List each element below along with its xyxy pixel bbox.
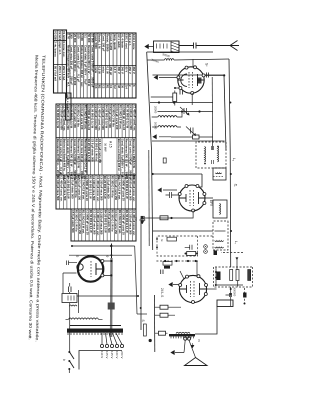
parts table C outer border — [56, 175, 136, 209]
svg-text:R1 50 000 Ω 0,1 W: R1 50 000 Ω 0,1 W — [125, 210, 129, 233]
svg-text:160 V: 160 V — [115, 351, 119, 358]
rotated landscape schematic group — [28, 30, 253, 373]
V1 cathode cup — [178, 74, 187, 86]
svg-text:Resistenza 1 MΩ 0,5 W . . . 1: Resistenza 1 MΩ 0,5 W . . . 1 MΩ — [132, 139, 136, 181]
capacitor C2 at V1 cathode — [180, 90, 183, 95]
svg-text:C2 100 pF mica 500: C2 100 pF mica 500 — [129, 105, 133, 130]
V3 anode bar — [200, 283, 207, 295]
svg-text:95 V: 95 V — [124, 67, 128, 73]
V1 internal anode block — [197, 78, 202, 84]
svg-text:6: 6 — [132, 85, 136, 87]
svg-text:A 15: A 15 — [109, 141, 113, 148]
tube V3 EBC3 detector envelope — [179, 275, 206, 302]
resistor R3 screen — [160, 216, 168, 220]
svg-text:Resistenza 300 Ω 1 W . . . 300: Resistenza 300 Ω 1 W . . . 300 Ω — [70, 139, 74, 180]
svg-text:36: 36 — [121, 85, 125, 88]
svg-text:262 V: 262 V — [132, 67, 136, 74]
voice coil terminal circles — [187, 337, 190, 340]
wire: vertical x=255 grid feed — [69, 254, 132, 256]
svg-text:R1 50 000 Ω 0,1 W: R1 50 000 Ω 0,1 W — [91, 105, 95, 129]
wire V2 screen to R3 — [182, 211, 193, 218]
svg-text:C3 5000 pF carta 10: C3 5000 pF carta 10 — [85, 176, 89, 201]
svg-text:245 V: 245 V — [121, 67, 125, 74]
svg-text:C5 8 μF elettr. 500: C5 8 μF elettr. 500 — [73, 105, 77, 128]
table C rows — [135, 175, 137, 209]
svg-text:EF9: EF9 — [209, 200, 213, 206]
junction dot — [230, 293, 232, 295]
wire: x=296 drop to mains box — [77, 295, 138, 297]
capacitor C5 V2 cathode bypass — [166, 192, 180, 198]
svg-text:C4 0,1 μF carta 150: C4 0,1 μF carta 150 — [80, 105, 84, 130]
svg-text:Cond. carta 5 000 pF . . . 500: Cond. carta 5 000 pF . . . 5000 pF — [73, 139, 77, 181]
svg-text:Resistenza 300 Ω 1 W . . . 300: Resistenza 300 Ω 1 W . . . 300 Ω — [87, 45, 91, 87]
component C13 inside enclosure — [185, 245, 192, 250]
svg-text:0,1 W: 0,1 W — [105, 67, 109, 75]
svg-text:C1 450 pF cond. var.: C1 450 pF cond. var. — [96, 176, 100, 202]
svg-text:5: 5 — [75, 256, 79, 258]
antenna tap box (presa variabile) — [154, 41, 180, 53]
svg-text:Cond. carta 0,1 μF . . . 0,1 μ: Cond. carta 0,1 μF . . . 0,1 μF — [77, 45, 81, 82]
svg-text:R1 50 000 Ω 0,1 W: R1 50 000 Ω 0,1 W — [89, 176, 93, 199]
svg-text:R3 300 Ω 1 W filo: R3 300 Ω 1 W filo — [110, 176, 114, 198]
svg-text:R2 1 MΩ 0,5 W pot.: R2 1 MΩ 0,5 W pot. — [82, 210, 86, 234]
capacitor C9 blob — [243, 293, 246, 298]
wire: second bus y=134 — [148, 150, 150, 246]
wire: speaker leads — [184, 340, 196, 357]
wire: L2 top lead — [152, 112, 182, 128]
svg-text:C2: C2 — [101, 85, 105, 89]
svg-text:R1 50 000 Ω 0,1 W: R1 50 000 Ω 0,1 W — [89, 210, 93, 233]
series resistor on B+ feed — [141, 216, 144, 221]
dashed extension of enclosure left edge — [198, 235, 213, 237]
svg-text:262 V 6 mA: 262 V 6 mA — [62, 66, 66, 80]
resistor R8 — [160, 305, 168, 309]
svg-text:C6 250 pF mica 500: C6 250 pF mica 500 — [63, 176, 67, 201]
wire: vertical x=246 feed — [72, 245, 135, 247]
bottom band dividers — [54, 41, 67, 65]
svg-text:C4 0,1 μF carta 150: C4 0,1 μF carta 150 — [98, 139, 102, 164]
svg-text:50000: 50000 — [154, 122, 158, 130]
svg-text:5 000: 5 000 — [80, 34, 84, 41]
svg-text:C1 450 pF cond. var.: C1 450 pF cond. var. — [59, 176, 63, 202]
svg-text:0,4: 0,4 — [124, 85, 128, 89]
wire: V4 pins to HT line — [104, 261, 111, 275]
svg-text:Cond. 100 pF: Cond. 100 pF — [101, 34, 105, 52]
capacitor C8 black blob in AVC box — [217, 272, 221, 281]
svg-text:9: 9 — [105, 256, 109, 258]
wire: V1 cathode down — [169, 77, 179, 88]
AVC dashed box — [214, 267, 253, 287]
V4 anode bar — [96, 263, 104, 275]
svg-text:C2 100 pF mica 500: C2 100 pF mica 500 — [94, 105, 98, 130]
IF transformer T1 dashed box — [196, 142, 226, 168]
wire: winding to voice coil — [185, 335, 189, 338]
svg-text:145 V: 145 V — [110, 351, 114, 358]
wire: bottom bus left section — [147, 52, 153, 250]
svg-text:R3 300 Ω 1 W filo: R3 300 Ω 1 W filo — [74, 176, 78, 198]
svg-text:Resistenza 20 000 Ω . . . 20 0: Resistenza 20 000 Ω . . . 20 000 — [56, 139, 60, 179]
junction blob y128 — [149, 339, 152, 342]
table A col divider x=65.5 — [94, 65, 136, 67]
wire: drop at x=75 — [153, 74, 225, 76]
svg-text:R1: R1 — [105, 85, 109, 89]
junction dot osc bus — [152, 173, 154, 175]
junction dot bottom x246 — [71, 245, 73, 247]
wire: primary to mains y=204.5 — [78, 290, 80, 313]
V3 pin circles — [179, 275, 208, 304]
svg-text:C1 450 pF cond. var.: C1 450 pF cond. var. — [132, 176, 136, 202]
svg-text:Resistenza 300 Ω 1 W . . . 300: Resistenza 300 Ω 1 W . . . 300 Ω — [124, 139, 128, 180]
parts table D outer border — [71, 209, 136, 241]
T1 trimmer marks — [212, 146, 214, 164]
table B col divider x=137.7 — [56, 137, 136, 139]
T2 winding row — [220, 204, 221, 215]
ground arrow V1 cathode — [154, 76, 169, 80]
svg-text:R1 50 000 Ω 0,1 W: R1 50 000 Ω 0,1 W — [125, 176, 129, 199]
svg-text:R2 1 MΩ 0,5 W pot.: R2 1 MΩ 0,5 W pot. — [118, 176, 122, 200]
svg-text:400000: 400000 — [233, 288, 237, 297]
mains box marks — [68, 296, 74, 301]
table B left rows — [135, 104, 137, 138]
svg-text:300 V: 300 V — [117, 67, 121, 74]
svg-text:Resist. 1 M: Resist. 1 M — [98, 34, 102, 49]
black blob at T3 corner — [214, 251, 218, 256]
svg-text:C3 5000 pF carta 10: C3 5000 pF carta 10 — [121, 176, 125, 201]
table A upper row lines — [135, 33, 137, 98]
V2 anode bar — [199, 192, 206, 204]
svg-text:300: 300 — [70, 34, 74, 39]
svg-text:Cond. elettr. 8 μF 500 V . . 8: Cond. elettr. 8 μF 500 V . . 8 μF — [83, 45, 87, 85]
V3 grid dashed — [191, 281, 195, 297]
wire: vertical x=111.5 — [158, 111, 214, 113]
ground arrow V2 cathode — [158, 188, 177, 192]
svg-text:C3 5000 pF carta 10: C3 5000 pF carta 10 — [87, 105, 91, 131]
inductor L1 antenna coil — [164, 59, 174, 61]
ground arrow speaker — [171, 351, 184, 355]
svg-text:C5 8 μF elettr. 500: C5 8 μF elettr. 500 — [107, 176, 111, 199]
ground arrow oscillator — [153, 135, 171, 139]
wire: V2 screen drop x=218 — [141, 217, 182, 219]
tube V1 ECH4 converter envelope — [178, 67, 204, 93]
table B right lower rows — [86, 138, 88, 175]
fuse component y=138 — [144, 324, 147, 336]
wire: switch to plug — [68, 303, 70, 373]
wire: R2 leads — [171, 136, 213, 138]
T3 winding a — [215, 241, 224, 242]
svg-text:C4 0,1 μF carta 150: C4 0,1 μF carta 150 — [114, 210, 118, 234]
svg-text:C6 250 pF mica 500: C6 250 pF mica 500 — [66, 105, 70, 130]
svg-text:AL 4 finale: AL 4 finale — [121, 34, 125, 48]
capacitor C1 antenna series — [180, 43, 197, 49]
table B right upper rows — [135, 138, 137, 175]
junction dot near V1 bottom — [174, 87, 176, 89]
svg-text:Cond. carta 5 000 pF . . . 500: Cond. carta 5 000 pF . . . 5000 pF — [90, 45, 94, 88]
svg-text:L₂: L₂ — [232, 158, 236, 162]
IF transformer T3 dashed box — [213, 221, 228, 250]
T1 lead dots — [204, 146, 219, 165]
wire: stub x=52 — [147, 51, 213, 53]
svg-text:C5 8 μF elettr. 500: C5 8 μF elettr. 500 — [70, 176, 74, 199]
ground arrow V3 — [169, 283, 179, 287]
power transformer core line — [70, 325, 122, 327]
parts table A lower half — [67, 33, 95, 98]
switch contacts — [70, 352, 75, 368]
terminal circles voltage selector — [120, 344, 123, 347]
svg-text:Bobina oscillatore 468 kc . .: Bobina oscillatore 468 kc . . osc. — [117, 139, 121, 181]
capacitor C12 mains — [69, 287, 72, 293]
svg-text:20000: 20000 — [154, 106, 158, 114]
junction dots AVC bottom — [215, 271, 217, 286]
svg-text:6,3 V: 6,3 V — [113, 67, 117, 74]
arrow into AVC — [235, 258, 238, 260]
svg-text:C4 0,1 μF carta 150: C4 0,1 μF carta 150 — [114, 176, 118, 200]
wire: V3 grid to bus — [180, 261, 197, 279]
svg-text:Bobina oscillatore 468 kc . .: Bobina oscillatore 468 kc . . osc. — [63, 139, 67, 181]
junction dot x255 on HT — [110, 254, 112, 256]
capacitor C11 near V3 — [161, 270, 163, 275]
junction dots B+ — [137, 295, 142, 309]
svg-text:10 000: 10 000 — [90, 34, 94, 43]
svg-text:Cond. carta 0,1 μF . . . 0,1 μ: Cond. carta 0,1 μF . . . 0,1 μF — [59, 139, 63, 176]
wire: y=148 link right — [135, 246, 137, 314]
solid line x=231 from T3 to bus — [153, 230, 213, 232]
svg-text:R1 50 000 Ω 0,1 W: R1 50 000 Ω 0,1 W — [125, 105, 129, 129]
bottom band step piece — [66, 93, 72, 120]
svg-text:C2 100 pF mica 500: C2 100 pF mica 500 — [92, 210, 96, 235]
wire: AVC box bottom bus — [215, 268, 243, 286]
dashed AVC line lower x=261 — [156, 260, 198, 262]
svg-text:C1 450 pF cond. var.: C1 450 pF cond. var. — [132, 105, 136, 131]
comb teeth secondary — [121, 333, 123, 335]
svg-text:C6 250 pF mica 500: C6 250 pF mica 500 — [101, 105, 105, 130]
table A lower row lines — [93, 33, 95, 98]
variable capacitor CV2 oscillator arrow — [186, 127, 196, 136]
svg-text:Trimm: Trimm — [151, 58, 160, 64]
svg-text:50 000: 50 000 — [87, 34, 91, 43]
capacitor C10 small — [226, 293, 232, 297]
mains entry box — [62, 294, 77, 303]
svg-text:R4 20 000 Ω 0,5 W: R4 20 000 Ω 0,5 W — [104, 105, 108, 129]
wire: V1 right pin to oscillator — [191, 93, 193, 105]
V1 grid dashed — [189, 72, 193, 88]
svg-text:Resistenza 20 000 Ω . . . 20 0: Resistenza 20 000 Ω . . . 20 000 — [73, 45, 77, 86]
resistor R5 in AVC box — [236, 270, 239, 281]
capacitor blob near V3 — [164, 266, 170, 269]
svg-text:C2 100 pF mica 500: C2 100 pF mica 500 — [92, 176, 96, 201]
svg-text:Cond. elettr. 8 μF 500 V . . 8: Cond. elettr. 8 μF 500 V . . 8 μF — [66, 139, 70, 178]
electrolytic capacitor blob on HT line — [108, 303, 115, 310]
wire y=46 feed — [236, 257, 239, 287]
svg-text:220 V: 220 V — [120, 351, 124, 358]
junction dots oscillator — [158, 101, 201, 112]
V2 grids dashed — [190, 190, 194, 206]
wire: R1 to bus — [151, 91, 175, 106]
svg-text:C5 8 μF elettr. 500: C5 8 μF elettr. 500 — [108, 105, 112, 128]
svg-text:EBC 3 rivel.: EBC 3 rivel. — [124, 34, 128, 50]
svg-text:0,1: 0,1 — [83, 34, 87, 38]
svg-text:R3 300 Ω 1 W filo: R3 300 Ω 1 W filo — [77, 105, 81, 127]
V4 pin circles — [101, 260, 104, 277]
svg-text:L₇: L₇ — [234, 241, 238, 245]
svg-text:S: S — [141, 320, 145, 322]
bottom band row lines — [66, 30, 68, 93]
CV2 plates — [191, 128, 194, 134]
svg-text:C4 0,1 μF carta 150: C4 0,1 μF carta 150 — [78, 210, 82, 234]
wire: primary top lead — [66, 318, 103, 320]
speaker transformer winding thick bar — [169, 334, 195, 336]
HT line thin part y=171.5 — [111, 244, 113, 259]
svg-text:C5 8 μF elettr. 500: C5 8 μF elettr. 500 — [91, 139, 95, 162]
svg-text:R2 1 MΩ 0,5 W pot.: R2 1 MΩ 0,5 W pot. — [81, 176, 85, 200]
V3 cathode — [180, 285, 187, 293]
svg-text:Cond. mica 100 pF . . . . . 10: Cond. mica 100 pF . . . . . 100 pF — [80, 139, 84, 180]
svg-text:V3 EBC3 riv. bassa: V3 EBC3 riv. bassa — [53, 31, 57, 57]
resistor R2b small — [163, 158, 166, 163]
svg-text:R4 20 000 Ω 0,5 W: R4 20 000 Ω 0,5 W — [103, 176, 107, 199]
svg-text:R4 20 000 Ω 0,5 W: R4 20 000 Ω 0,5 W — [70, 105, 74, 129]
switch dots — [68, 351, 70, 370]
resistor R2 oscillator — [193, 135, 200, 139]
dashed enclosure around detector stage — [157, 236, 198, 256]
wire: V1 anode up to bus — [205, 74, 224, 76]
svg-text:110 V: 110 V — [100, 351, 104, 358]
power transformer primary winding loops — [96, 318, 99, 319]
svg-text:24 L.S: 24 L.S — [160, 288, 164, 297]
svg-text:R2 1 MΩ 0,5 W pot.: R2 1 MΩ 0,5 W pot. — [118, 105, 122, 130]
resistor R1 beside V1 — [173, 93, 177, 102]
svg-text:125 V: 125 V — [105, 351, 109, 358]
wire: V2 grid lead from x=174 — [153, 174, 202, 187]
V2 cathode — [179, 194, 186, 202]
junction dot HT — [110, 245, 112, 247]
table B strong divider y=196 — [86, 104, 88, 175]
svg-text:0,2: 0,2 — [113, 85, 117, 89]
dashed grid feed line y=38.5 — [244, 288, 246, 304]
V2 pin circles — [178, 185, 206, 213]
svg-text:450 pF: 450 pF — [109, 67, 113, 76]
wire: V4 cathode down — [63, 273, 77, 293]
svg-text:Resistenza 1 MΩ 0,5 W . . . 1: Resistenza 1 MΩ 0,5 W . . . 1 MΩ — [76, 139, 80, 181]
svg-text:Cond. elettr. 8 μF 500 V . . 8: Cond. elettr. 8 μF 500 V . . 8 μF — [121, 139, 125, 178]
svg-text:R3 300 Ω 1 W filo: R3 300 Ω 1 W filo — [74, 210, 78, 232]
svg-text:Bobina oscillatore 468 kc . .: Bobina oscillatore 468 kc . . osc. — [80, 45, 84, 88]
svg-text:C4 0,1 μF carta 150: C4 0,1 μF carta 150 — [115, 105, 119, 130]
thick HT line y=171.7 — [110, 258, 113, 337]
svg-text:Cond. carta 5 000 pF . . . 500: Cond. carta 5 000 pF . . . 5000 pF — [128, 139, 132, 181]
svg-text:47: 47 — [233, 183, 237, 188]
svg-text:25 000: 25 000 — [73, 34, 77, 43]
svg-text:48: 48 — [117, 85, 121, 88]
resistor R5b in AVC box — [230, 270, 233, 281]
wire: V2 anode up — [205, 197, 213, 199]
V4 inner cathode circle — [77, 264, 83, 270]
arrow right of transformer — [191, 343, 194, 348]
V4 grid dashed — [90, 261, 92, 277]
svg-text:Cond. mica 250 pF . . . . 250: Cond. mica 250 pF . . . . 250 pF — [70, 45, 74, 85]
svg-text:lamp. quadr.: lamp. quadr. — [113, 34, 117, 51]
svg-text:R4 20 000 Ω 0,5 W: R4 20 000 Ω 0,5 W — [103, 210, 107, 233]
wire: vertical x=141 to T1 — [152, 140, 225, 142]
wire R6 dots — [185, 253, 199, 255]
inductor L3 oscillator secondary — [158, 126, 177, 128]
resistor R10 — [159, 331, 166, 335]
svg-text:C3 5000 pF carta 10: C3 5000 pF carta 10 — [122, 105, 126, 131]
svg-text:C4 0,1 μF carta 150: C4 0,1 μF carta 150 — [78, 176, 82, 200]
svg-text:C3 5000 pF carta 10: C3 5000 pF carta 10 — [121, 210, 125, 235]
T3 winding b — [215, 247, 224, 248]
capacitor C3 in grid lead — [207, 73, 209, 78]
svg-text:Cond. 2x450: Cond. 2x450 — [109, 34, 113, 51]
junction dots on AVC dashed line — [164, 260, 197, 262]
resistor R7 vertical near V3 — [163, 262, 172, 266]
resistor R11 inside enclosure — [167, 237, 177, 241]
svg-text:AZ 1 raddr.: AZ 1 raddr. — [117, 34, 121, 49]
wire: vertical x=102.5 — [150, 102, 213, 104]
svg-text:R4 20 000 Ω 0,5 W: R4 20 000 Ω 0,5 W — [87, 139, 91, 163]
svg-text:R3 300 Ω 1 W filo: R3 300 Ω 1 W filo — [111, 105, 115, 127]
tap marks inside antenna box — [157, 44, 168, 49]
svg-text:C1 450 pF cond. var.: C1 450 pF cond. var. — [63, 105, 67, 131]
junction dots on HT at V4 — [110, 260, 112, 277]
table D rows — [135, 209, 137, 241]
wire: V1 left grid lead — [192, 59, 194, 67]
resistor R4 in AVC box — [248, 270, 251, 281]
svg-text:R2 1 MΩ 0,5 W pot.: R2 1 MΩ 0,5 W pot. — [118, 210, 122, 234]
output transformer box — [217, 300, 233, 307]
svg-text:C6 250 pF mica 500: C6 250 pF mica 500 — [99, 176, 103, 201]
svg-text:C5 8 μF elettr. 500: C5 8 μF elettr. 500 — [107, 210, 111, 233]
resistor R6 above V3 — [187, 252, 196, 256]
svg-text:30000: 30000 — [162, 52, 171, 58]
hatched section of antenna box — [171, 41, 179, 53]
svg-text:C2 100 pF mica 500: C2 100 pF mica 500 — [59, 105, 63, 130]
tube V4 AL4 output envelope bold — [78, 256, 103, 281]
table A col divider x=84 — [94, 83, 136, 85]
V1 pin circles — [177, 66, 205, 95]
comb teeth on winding — [193, 336, 195, 338]
wire: top AVC bus y=53 — [229, 59, 231, 267]
wire: antenna lead-in — [197, 45, 231, 47]
junction dot x218 — [170, 217, 172, 219]
wire y=142 B+ bus — [140, 218, 142, 330]
double arrow marker — [139, 216, 146, 224]
svg-text:S²: S² — [205, 63, 209, 67]
T1 primary winding — [218, 147, 219, 162]
CV1 plates — [184, 108, 187, 114]
svg-text:C3 5000 pF carta 10: C3 5000 pF carta 10 — [85, 210, 89, 235]
svg-text:C2 100 pF mica 500: C2 100 pF mica 500 — [129, 176, 133, 201]
svg-text:95 V 0,4 mA: 95 V 0,4 mA — [53, 66, 57, 81]
svg-text:C2 100 pF mica 500: C2 100 pF mica 500 — [56, 176, 60, 201]
wire: R8 R9 vertical leads — [155, 307, 182, 333]
svg-text:R2: R2 — [98, 85, 102, 89]
wire: second top bus y=58 — [224, 75, 226, 150]
bus y=128.5 output — [153, 295, 155, 352]
speaker cone triangle — [185, 358, 208, 366]
svg-text:C6 250 pF mica 500: C6 250 pF mica 500 — [100, 210, 104, 235]
parts table B outer border — [56, 104, 136, 175]
wire: left drop of AVC bus at x=59 — [174, 59, 229, 60]
svg-text:N: N — [197, 340, 201, 342]
T1 secondary winding — [205, 147, 206, 162]
svg-text:C2 100 pF mica 500: C2 100 pF mica 500 — [129, 210, 133, 235]
dashed AVC line upper x=252 — [221, 252, 243, 254]
svg-text:R3 300 Ω 1 W filo: R3 300 Ω 1 W filo — [111, 210, 115, 232]
svg-text:b: b — [62, 359, 66, 361]
svg-text:250 V 2 mA: 250 V 2 mA — [58, 66, 62, 80]
resistor R9 — [160, 313, 168, 317]
V4 grid marks below — [67, 261, 78, 266]
